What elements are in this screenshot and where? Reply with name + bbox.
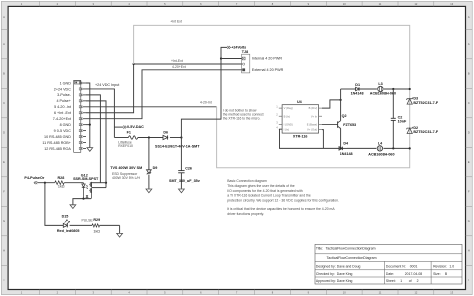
transistor Q2 FZT653 (322, 114, 356, 128)
ground at end of pulse row (117, 233, 123, 237)
svg-text:R28: R28 (58, 176, 65, 180)
diode D1 (351, 83, 364, 96)
fuse F1 (118, 130, 138, 148)
svg-text:SSR-SM-SPST: SSR-SM-SPST (73, 177, 99, 181)
svg-text:Internal 4 20 PWR: Internal 4 20 PWR (252, 57, 282, 61)
wire pulse LED row (45, 183, 120, 234)
wire SSR upper output (92, 182, 106, 184)
svg-text:B (In): B (In) (284, 114, 291, 118)
wire grey isolation loop (pin6/pin5 outer loop) (134, 25, 410, 167)
svg-text:4-20-Int: 4-20-Int (200, 101, 212, 105)
svg-text:D9: D9 (153, 166, 158, 170)
svg-text:D15: D15 (62, 215, 69, 219)
svg-text:Date:: Date: (386, 272, 394, 276)
svg-text:B (Drv): B (Drv) (309, 106, 318, 110)
note text basic connection diagram (227, 179, 339, 216)
ground below SSR (70, 205, 76, 209)
svg-text:V+ (Out): V+ (Out) (307, 128, 317, 132)
ground symbol below connector (87, 148, 93, 152)
capacitor C2 (391, 89, 407, 148)
svg-text:1kΩ: 1kΩ (93, 229, 100, 233)
TJ8 labels (252, 57, 284, 72)
svg-text:1N4148: 1N4148 (340, 152, 353, 156)
wire Pulse+ from pin4 down to SSR output (86, 101, 107, 188)
wire +24Volts route up to flag (181, 47, 242, 137)
svg-text:Revision:: Revision: (433, 264, 447, 268)
svg-text:H: H (3, 249, 5, 253)
connector P3 12-pin header (74, 80, 86, 152)
svg-text:A: A (3, 42, 5, 46)
svg-text:E: E (468, 160, 470, 164)
svg-text:RXEF010: RXEF010 (118, 144, 133, 148)
svg-text:It is critical that the device: It is critical that the device capacitie… (227, 207, 335, 211)
svg-text:400W 30V 5% L/H: 400W 30V 5% L/H (112, 176, 140, 180)
svg-text:2: 2 (417, 279, 419, 283)
wire 4-20+Ext from pin7 to TJ8 pin3 (86, 70, 242, 119)
net flag 0-5V-DAC (114, 125, 144, 129)
zener D2 BZT52C31 (406, 126, 439, 134)
U4 internal pin labels (284, 106, 318, 132)
svg-text:L3: L3 (378, 82, 382, 86)
svg-text:BZT52C31-7-F: BZT52C31-7-F (413, 130, 439, 134)
svg-text:PULSE: PULSE (82, 218, 94, 222)
svg-text:A: A (468, 15, 470, 19)
title block text (316, 246, 454, 282)
svg-text:11 RS-485 ROB+: 11 RS-485 ROB+ (42, 141, 71, 145)
svg-text:2017-04-08: 2017-04-08 (405, 272, 422, 276)
wire SSR cathode to ground (73, 198, 91, 205)
svg-text:D1: D1 (355, 83, 360, 87)
svg-text:XTR-116: XTR-116 (293, 134, 308, 138)
svg-text:D: D (468, 131, 470, 135)
svg-text:the XTR-116 to the micro.: the XTR-116 to the micro. (223, 117, 261, 121)
svg-text:C: C (468, 101, 470, 105)
svg-text:Dave King: Dave King (337, 272, 353, 276)
svg-text:I (GND): I (GND) (284, 122, 293, 126)
TVS labels (110, 166, 157, 180)
svg-text:TVS 400W 30V SM: TVS 400W 30V SM (110, 166, 142, 170)
C26 labels (169, 167, 201, 184)
svg-text:G: G (3, 219, 5, 223)
svg-text:BZT52C31-7-F: BZT52C31-7-F (413, 101, 439, 105)
svg-text:C26: C26 (185, 167, 192, 171)
svg-text:V (Reg): V (Reg) (284, 106, 293, 110)
wire U4 IRET pin down and output line with D4 L4 (280, 129, 411, 149)
svg-text:Checked by:: Checked by: (316, 272, 335, 276)
svg-text:Red_led0805: Red_led0805 (57, 229, 80, 233)
svg-text:4-20+Ext: 4-20+Ext (172, 65, 186, 69)
svg-text:R29: R29 (93, 218, 100, 222)
ground below D9 (146, 189, 152, 193)
U4 left pin stubs (276, 105, 282, 130)
wire U4 pin8 to node A (322, 99, 342, 108)
svg-text:FZT653: FZT653 (343, 123, 356, 127)
svg-text:Title:: Title: (316, 246, 323, 250)
svg-text:H: H (468, 249, 470, 253)
svg-text:3-Pulse-: 3-Pulse- (57, 93, 72, 97)
diode D6 (155, 130, 200, 148)
wire U4 V+out pin down to output line (322, 130, 323, 149)
svg-text:E (Base): E (Base) (307, 123, 318, 127)
svg-text:10nF: 10nF (398, 120, 407, 124)
wire SSR lower output (92, 187, 106, 189)
svg-text:D: D (3, 131, 5, 135)
resistor R29 (92, 218, 100, 234)
svg-text:I/O components for the 4-20 th: I/O components for the 4-20 that is gene… (227, 189, 303, 193)
TVS diode D9 branch (147, 138, 152, 189)
diode D4 (339, 142, 353, 157)
wire node A vertical collector rail (340, 89, 342, 149)
svg-text:of: of (409, 279, 412, 283)
connector pin labels (42, 81, 71, 150)
wire 4-20 -Int from pin5 to loop corner (86, 106, 217, 108)
wire Pulse- from pin3 down to SSR output (86, 95, 100, 183)
svg-text:1 GND: 1 GND (60, 81, 72, 85)
svg-text:Basic Connection diagram: Basic Connection diagram (227, 179, 267, 183)
svg-text:1: 1 (400, 279, 402, 283)
svg-text:+Int Ext: +Int Ext (170, 20, 182, 24)
svg-text:Dave King: Dave King (337, 279, 353, 283)
svg-text:I (In): I (In) (284, 127, 290, 131)
svg-text:Size:: Size: (433, 272, 441, 276)
ground below C26 (179, 189, 185, 193)
svg-text:This diagram gives the user th: This diagram gives the user the details … (227, 184, 295, 188)
capacitor C26 branch (178, 138, 184, 189)
svg-text:1N4148: 1N4148 (351, 92, 364, 96)
svg-text:TacticalFlowConnectionDiagram: TacticalFlowConnectionDiagram (326, 246, 376, 250)
svg-text:SMT_330_uF_35v: SMT_330_uF_35v (169, 179, 201, 183)
inductor L3 ferrite bead (370, 82, 396, 95)
svg-text:E: E (3, 160, 5, 164)
svg-text:D6: D6 (163, 130, 168, 134)
svg-text:a TI XTR-116 isolated Current: a TI XTR-116 isolated Current Loop Trans… (227, 194, 311, 198)
relay G12 SSR-SM-SPST (45, 108, 462, 284)
resistor R28 (55, 176, 84, 189)
op-amp U4 XTR-116 (282, 100, 319, 138)
svg-text:+Int-Ext: +Int-Ext (171, 59, 183, 63)
svg-text:0-5V-DAC: 0-5V-DAC (127, 125, 144, 129)
svg-text:ACB1608H-060: ACB1608H-060 (368, 153, 394, 157)
wire top loop line y=89 with D1 L3 (341, 88, 411, 90)
svg-text:+24Volts: +24Volts (231, 46, 246, 50)
wire GND net from pin1 and pin8 to ground (86, 83, 91, 147)
svg-text:ACB1608H-060: ACB1608H-060 (370, 92, 396, 96)
svg-text:V+ In: V+ In (311, 114, 318, 118)
svg-text:B: B (3, 72, 5, 76)
svg-text:Q2: Q2 (342, 114, 347, 118)
svg-text:G: G (468, 219, 470, 223)
inductor L4 ferrite bead (368, 142, 394, 157)
svg-text:5 4-20 -Int: 5 4-20 -Int (54, 105, 71, 109)
svg-text:driver functions properly.: driver functions properly. (227, 212, 264, 216)
svg-text:F1: F1 (127, 130, 131, 134)
svg-text:A: A (468, 42, 470, 46)
svg-text:C: C (3, 101, 5, 105)
svg-text:Designed by:: Designed by: (316, 264, 336, 268)
svg-text:Sheet:: Sheet: (386, 279, 396, 283)
svg-text:External 4 20 PWR: External 4 20 PWR (252, 68, 284, 72)
svg-text:protection circuitry. We suppo: protection circuitry. We support 12 - 36… (227, 199, 339, 203)
svg-text:TacticalFlowConnectionDiagram: TacticalFlowConnectionDiagram (327, 256, 377, 260)
svg-text:Dave and Doug: Dave and Doug (337, 264, 361, 268)
svg-text:+24 VDC Input: +24 VDC Input (95, 83, 119, 87)
svg-text:9 0-5 VDC: 9 0-5 VDC (54, 129, 72, 133)
svg-text:1kΩ: 1kΩ (58, 185, 65, 189)
wire +24 fused line (114, 136, 182, 138)
svg-text:P4-PulseOr: P4-PulseOr (24, 176, 44, 180)
net flag +24Volts (227, 46, 246, 50)
svg-text:6 +Int -Ext: 6 +Int -Ext (54, 111, 71, 115)
net flag P4-PulseOr (24, 176, 54, 184)
LED D15 (57, 215, 80, 233)
svg-text:A: A (3, 15, 5, 19)
wire +Int-Ext horizontal run to TJ8 pin2 (134, 63, 243, 65)
svg-text:8 GND: 8 GND (60, 123, 72, 127)
svg-text:1.0: 1.0 (449, 264, 454, 268)
note text XTR micro (223, 108, 264, 120)
wire +Int -Ext from pin6 up to loop (86, 63, 135, 113)
svg-text:0001: 0001 (410, 264, 418, 268)
wire +24 VDC from pin2 down to fuse line (86, 89, 114, 138)
svg-text:2+24 VDC: 2+24 VDC (54, 87, 71, 91)
zener D3 BZT52C31 (406, 97, 439, 105)
U4 right pin stubs (319, 108, 322, 130)
svg-text:Approved by:: Approved by: (316, 279, 336, 283)
connector TJ8 (242, 50, 250, 73)
svg-text:B: B (468, 72, 470, 76)
svg-text:7-4-20+Ext: 7-4-20+Ext (53, 117, 71, 121)
svg-text:10 RS-485 GND: 10 RS-485 GND (44, 135, 71, 139)
svg-text:12 RS-485 ROA: 12 RS-485 ROA (44, 147, 71, 151)
svg-text:Document N:: Document N: (386, 264, 406, 268)
title block (315, 244, 462, 284)
svg-text:4 Pulse+: 4 Pulse+ (56, 99, 70, 103)
svg-text:TJ8: TJ8 (242, 50, 248, 54)
svg-text:SS14-E3/61T-46V-1A-SMT: SS14-E3/61T-46V-1A-SMT (155, 145, 200, 149)
